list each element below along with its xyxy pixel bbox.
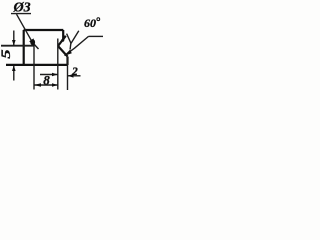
svg-text:2: 2	[71, 66, 78, 78]
V-notch upper leg	[58, 36, 66, 46]
dia3 leader line	[17, 14, 35, 45]
body bottom edge with left extension	[6, 64, 68, 66]
body right upper face	[62, 30, 64, 40]
dim 2 left dimension line	[40, 74, 58, 76]
60deg leader horizontal	[89, 35, 104, 37]
body top edge	[24, 29, 64, 31]
extension vertical x57.5	[57, 39, 59, 90]
dim 5 upper dimension line	[13, 31, 15, 46]
dia3 leader arrow blob	[30, 39, 35, 45]
60deg leader arrowhead	[64, 50, 72, 56]
svg-text:60: 60	[84, 16, 96, 30]
dim 2 right arrowhead (points left)	[68, 74, 74, 78]
dim 8 left arrowhead	[34, 83, 41, 87]
dia3 label underline	[11, 13, 31, 15]
dim 8 dimension line	[34, 84, 58, 86]
dim 8 right arrowhead	[52, 83, 58, 87]
dim 5 upper arrowhead (down)	[12, 40, 16, 46]
dim 5 lower dimension line	[13, 66, 15, 81]
internal horizontal line with left extension	[1, 45, 34, 47]
dim 5 lower arrowhead (up)	[12, 65, 16, 71]
extension vertical x67.5	[67, 57, 69, 91]
dia3 leader arrowhead	[29, 38, 34, 45]
60deg v-mark connector	[69, 44, 72, 50]
60deg angle tick v-mark	[67, 31, 79, 44]
body right lower face	[66, 57, 68, 66]
svg-text:5: 5	[0, 49, 13, 58]
60deg leader slant	[65, 36, 89, 55]
dim 2 left arrowhead (points right)	[52, 73, 58, 77]
internal vertical line x34 and extension	[33, 43, 35, 90]
label 60 degrees	[97, 18, 100, 21]
body left face	[23, 30, 25, 65]
junction blob at face-leg crossing	[61, 39, 64, 42]
dim 2 right dimension line	[68, 75, 81, 77]
dia3 leader tail overshoot	[33, 43, 39, 49]
svg-text:8: 8	[43, 72, 50, 87]
V-notch lower leg	[58, 46, 68, 57]
svg-text:Ø3: Ø3	[13, 1, 31, 16]
